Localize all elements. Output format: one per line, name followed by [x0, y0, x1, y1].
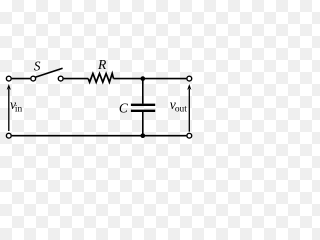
svg-text:vout: vout [170, 97, 187, 115]
svg-text:C: C [119, 100, 129, 115]
svg-text:vin: vin [10, 97, 22, 115]
svg-text:R: R [97, 57, 106, 72]
svg-text:S: S [34, 59, 41, 74]
